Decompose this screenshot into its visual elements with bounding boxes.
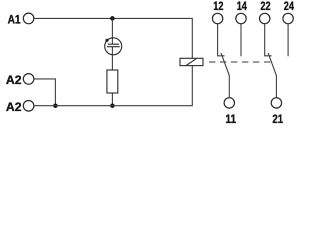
wire NO contact 24: [287, 24, 289, 57]
svg-text:22: 22: [260, 0, 270, 13]
wire NC contact 22 with seat: [265, 24, 272, 56]
capacitor suppressor C1 (circled polarized element): [105, 38, 122, 55]
svg-text:A2: A2: [6, 100, 22, 114]
terminal A1: [23, 13, 34, 24]
node junction A2 wires: [53, 103, 58, 108]
wire NO contact 14: [240, 24, 242, 57]
svg-text:A1: A1: [8, 13, 21, 27]
terminal 12: [212, 13, 222, 23]
wire bottom rail to coil: [34, 66, 192, 106]
svg-text:21: 21: [272, 112, 283, 124]
contact armature K1.2: [268, 53, 276, 98]
svg-text:A2: A2: [6, 73, 22, 87]
wire branch down to suppressor: [111, 18, 113, 44]
wire A2 upper to bottom rail: [34, 79, 56, 106]
svg-text:12: 12: [213, 0, 223, 13]
svg-text:11: 11: [225, 112, 236, 124]
wire NC contact 12 with seat: [218, 24, 225, 56]
contact armature K1.1: [221, 53, 229, 98]
wire A1 to coil (top rail): [34, 18, 192, 58]
terminal 22: [260, 13, 270, 23]
terminal A2 lower: [23, 101, 34, 112]
terminal 11: [224, 98, 234, 108]
wire suppressor to resistor: [111, 47, 113, 70]
terminal 24: [283, 13, 293, 23]
mechanical link (dashed): [209, 61, 272, 63]
node junction on A1 rail: [110, 16, 115, 21]
terminal 21: [271, 98, 281, 108]
svg-text:24: 24: [284, 0, 294, 13]
wire resistor to bottom rail: [111, 93, 113, 106]
resistor R1: [107, 70, 118, 93]
svg-text:14: 14: [237, 0, 247, 13]
node junction resistor/bottom rail: [110, 103, 115, 108]
terminal A2 upper: [23, 74, 34, 85]
terminal 14: [236, 13, 246, 23]
relay coil K1: [180, 58, 203, 65]
